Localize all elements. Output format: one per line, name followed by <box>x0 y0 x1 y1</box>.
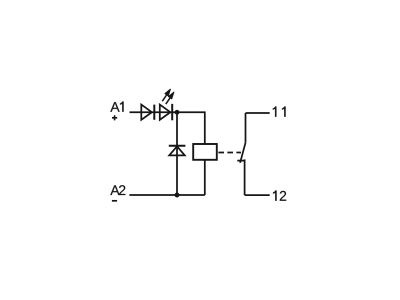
wire node down <box>176 112 178 195</box>
wire contact bottom lead <box>244 159 246 195</box>
label A1 <box>110 102 123 112</box>
LED D2 <box>160 104 172 120</box>
LED arrow 2 <box>166 92 174 104</box>
label minus <box>112 200 117 202</box>
diode D1 <box>141 105 154 120</box>
contact tick <box>237 160 245 162</box>
label 11 <box>273 107 286 117</box>
label plus <box>112 115 117 120</box>
wire A1 lead <box>130 111 178 113</box>
wire contact top lead <box>245 113 247 143</box>
LED arrow 1 <box>162 89 170 101</box>
freewheeling diode D3 <box>169 146 186 156</box>
junction node top <box>175 110 180 115</box>
label A2 <box>110 185 125 195</box>
relay coil K1 <box>193 144 217 160</box>
wire node to coil top <box>177 112 205 144</box>
dashed actuator link <box>218 152 241 154</box>
label 12 <box>273 191 286 201</box>
wire coil bottom lead <box>204 160 206 195</box>
wire to terminal 12 <box>245 194 270 196</box>
junction node bottom <box>175 193 180 198</box>
wire A2 lead <box>129 194 204 196</box>
contact moving arm <box>240 143 245 163</box>
wire to terminal 11 <box>246 112 270 114</box>
